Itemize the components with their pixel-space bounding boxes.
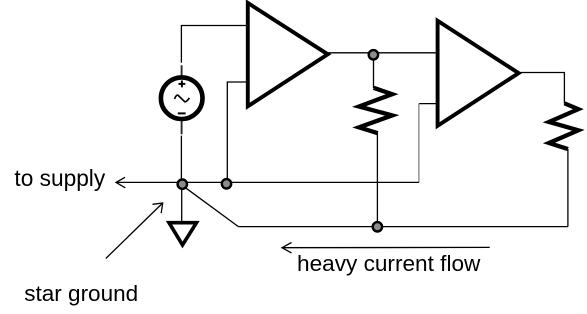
AC source V1 bbox=[161, 77, 203, 119]
wire from source top to op-amp U1 upper input bbox=[181, 26, 247, 63]
wire node A down to resistor R1 bbox=[373, 53, 375, 88]
node B bbox=[222, 179, 231, 188]
gray connector wire down to supply rail bbox=[418, 104, 420, 183]
node C bbox=[373, 222, 382, 231]
svg-text:to supply: to supply bbox=[14, 165, 105, 191]
star ground pointer arrow bbox=[106, 203, 163, 259]
svg-text:star ground: star ground bbox=[24, 281, 138, 306]
wire from source bottom to star ground node bbox=[180, 136, 182, 183]
diagonal wire star node to bottom rail bbox=[184, 186, 239, 226]
source bottom terminal stub bbox=[181, 121, 183, 135]
wire resistor R1 bottom to bottom rail bbox=[376, 133, 378, 226]
bottom heavy current rail bbox=[238, 226, 568, 228]
heavy current flow arrow bbox=[282, 246, 490, 248]
op-amp U1 bbox=[248, 3, 328, 106]
op-amp U2 bbox=[438, 21, 519, 126]
node A bbox=[369, 50, 378, 59]
wire U2 output to resistor R2 bbox=[519, 73, 565, 104]
resistor R2 bbox=[549, 103, 578, 149]
supply rail wire with arrow to supply bbox=[116, 181, 419, 183]
resistor R1 bbox=[359, 88, 392, 133]
svg-text:heavy current flow: heavy current flow bbox=[297, 251, 481, 276]
wire resistor R2 bottom to bottom rail bbox=[567, 149, 569, 227]
ground bbox=[169, 223, 197, 245]
wire U2 lower input stub bbox=[419, 103, 438, 105]
wire from node B up to op-amp U1 lower input bbox=[227, 82, 248, 183]
wire star node to ground bbox=[181, 184, 183, 223]
wire U1 output to U2 upper input bbox=[328, 52, 438, 54]
node star ground bbox=[178, 180, 187, 189]
source top terminal stub bbox=[181, 65, 183, 76]
